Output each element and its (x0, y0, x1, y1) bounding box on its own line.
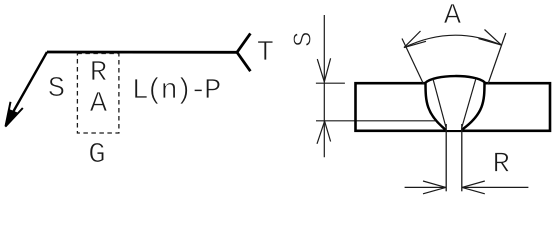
R arrow left (423, 181, 446, 194)
svg-text:S: S (289, 31, 319, 47)
svg-text:L(n)-P: L(n)-P (132, 74, 221, 107)
R arrow right (462, 181, 485, 194)
svg-text:S: S (48, 72, 65, 105)
weld bead fill (426, 76, 485, 130)
R dimension line right (462, 186, 528, 188)
angle dimension arc (404, 35, 501, 47)
dashed field box (77, 54, 119, 134)
arrow line (6, 52, 47, 125)
arrowhead (5, 102, 23, 128)
arc arrow right (479, 30, 502, 46)
root extension line left (445, 124, 447, 191)
arc arrow left (404, 31, 426, 48)
S arrow down (317, 58, 330, 82)
root extension line right (461, 124, 463, 191)
angle line right (488, 33, 506, 85)
S extension line upper (316, 82, 345, 84)
S extension line lower (316, 120, 436, 122)
tail fork lower (237, 52, 250, 71)
reference line (47, 51, 237, 54)
svg-text:A: A (444, 0, 462, 32)
svg-text:T: T (257, 36, 274, 69)
plate (356, 83, 551, 131)
S arrow up (317, 121, 331, 144)
groove face right (462, 79, 476, 128)
angle line left (402, 39, 424, 85)
svg-text:R: R (492, 148, 509, 181)
svg-text:A: A (90, 87, 108, 120)
svg-text:G: G (88, 138, 105, 171)
weld bead outline (426, 76, 485, 130)
S dimension line (323, 15, 325, 157)
groove face left (433, 79, 446, 128)
R dimension line left (405, 186, 446, 188)
svg-text:R: R (90, 56, 107, 89)
tail fork upper (237, 33, 250, 52)
